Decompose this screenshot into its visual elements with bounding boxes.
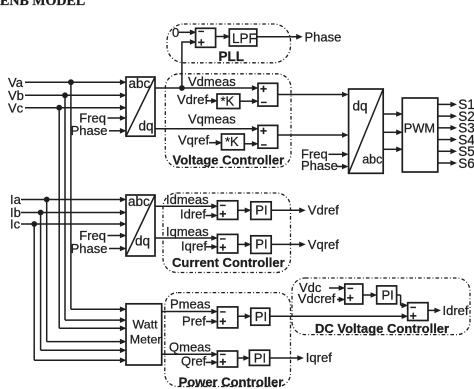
svg-text:+: +: [219, 355, 226, 369]
svg-text:Iqref: Iqref: [306, 350, 332, 365]
svg-text:*K: *K: [221, 93, 235, 108]
svg-text:+: +: [260, 124, 267, 138]
svg-text:dq: dq: [139, 119, 154, 134]
svg-text:+: +: [347, 291, 354, 305]
svg-text:abc: abc: [129, 76, 151, 91]
svg-text:Phase: Phase: [71, 241, 108, 256]
svg-text:Vqmeas: Vqmeas: [188, 112, 236, 127]
svg-text:S6: S6: [458, 156, 474, 171]
svg-text:+: +: [219, 241, 226, 255]
svg-text:Vqref: Vqref: [178, 133, 209, 148]
svg-text:Idmeas: Idmeas: [166, 192, 209, 207]
svg-text:+: +: [198, 35, 205, 49]
svg-text:0: 0: [172, 25, 179, 40]
svg-text:+: +: [260, 82, 267, 96]
svg-text:Phase: Phase: [305, 29, 342, 44]
svg-text:Vc: Vc: [8, 100, 24, 115]
svg-text:Idref: Idref: [443, 303, 469, 318]
svg-text:PI: PI: [382, 288, 394, 303]
svg-text:PWM: PWM: [404, 121, 435, 136]
svg-text:PI: PI: [255, 237, 267, 252]
svg-text:+: +: [219, 315, 226, 329]
svg-text:Current Controller: Current Controller: [172, 255, 285, 270]
svg-text:Phase: Phase: [301, 158, 338, 173]
svg-text:PI: PI: [255, 309, 267, 324]
svg-text:Iqref: Iqref: [181, 239, 207, 254]
svg-text:Power Controller: Power Controller: [179, 374, 284, 389]
svg-text:Vdmeas: Vdmeas: [188, 74, 236, 89]
svg-text:Pmeas: Pmeas: [170, 297, 211, 312]
svg-text:Phase: Phase: [71, 123, 108, 138]
svg-text:Vqref: Vqref: [308, 237, 339, 252]
svg-text:+: +: [219, 207, 226, 221]
svg-text:PI: PI: [255, 203, 267, 218]
svg-text:*K: *K: [225, 134, 239, 149]
svg-text:Idref: Idref: [180, 207, 206, 222]
svg-text:Vdcref: Vdcref: [298, 291, 336, 306]
svg-text:LPF: LPF: [232, 31, 257, 46]
svg-text:Vdref: Vdref: [177, 92, 208, 107]
svg-text:ENB MODEL: ENB MODEL: [0, 0, 85, 9]
svg-text:dq: dq: [353, 99, 368, 114]
svg-text:PI: PI: [254, 350, 266, 365]
svg-text:–: –: [261, 97, 267, 109]
svg-text:Pref: Pref: [182, 313, 206, 328]
svg-text:abc: abc: [128, 194, 150, 209]
svg-text:DC Voltage Controller: DC Voltage Controller: [315, 321, 449, 336]
svg-text:–: –: [261, 139, 267, 151]
svg-text:Ic: Ic: [10, 217, 21, 232]
svg-text:dq: dq: [135, 234, 150, 249]
svg-text:Watt: Watt: [133, 317, 159, 331]
svg-text:Qmeas: Qmeas: [169, 339, 211, 354]
svg-text:Iqmeas: Iqmeas: [166, 224, 209, 239]
svg-text:Meter: Meter: [130, 332, 162, 346]
svg-text:Vdref: Vdref: [308, 203, 339, 218]
svg-text:PLL: PLL: [219, 49, 245, 64]
svg-text:Qref: Qref: [181, 353, 207, 368]
svg-text:Voltage Controller: Voltage Controller: [173, 153, 285, 168]
svg-text:abc: abc: [362, 153, 382, 167]
